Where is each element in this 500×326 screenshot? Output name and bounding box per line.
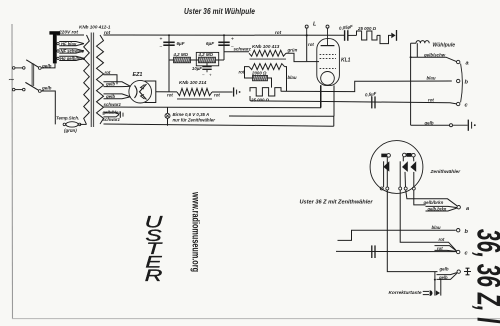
wire zenith blau bbox=[338, 230, 456, 240]
capacitor C1 6uF bbox=[163, 41, 174, 43]
svg-text:rot: rot bbox=[214, 93, 220, 98]
svg-text:rot: rot bbox=[105, 70, 111, 75]
svg-text:rot: rot bbox=[239, 69, 245, 74]
tap pennant gelb heater2 bbox=[104, 94, 131, 97]
brace abc bbox=[461, 64, 463, 103]
wire korrektur right bbox=[440, 279, 442, 296]
wire to jack bbox=[212, 91, 233, 93]
svg-text:Zenithwähler: Zenithwähler bbox=[430, 169, 462, 175]
KL1 pin2 bbox=[333, 85, 335, 116]
wire div to rot bbox=[245, 67, 253, 78]
selector tap 2 bbox=[57, 50, 59, 52]
tap pennant NF schwarz bbox=[59, 49, 84, 51]
tag rot lower bbox=[435, 246, 457, 251]
svg-text:Hg gelb/blau: Hg gelb/blau bbox=[60, 56, 86, 61]
svg-text:schwarz: schwarz bbox=[234, 47, 252, 52]
junction rail grid bbox=[306, 34, 308, 36]
plunger mid wedge bbox=[402, 161, 408, 172]
wire 220V rail bbox=[57, 34, 84, 36]
svg-text:25 000 Ω: 25 000 Ω bbox=[250, 98, 270, 103]
jack chassis bbox=[233, 87, 235, 96]
svg-text:gelb: gelb bbox=[105, 82, 115, 87]
svg-text:Birne 0,6 V 0,35 A: Birne 0,6 V 0,35 A bbox=[173, 112, 210, 117]
capacitor C2 6uF bbox=[218, 41, 229, 43]
svg-text:gelb: gelb bbox=[41, 86, 52, 91]
plunger left wires bbox=[383, 161, 385, 187]
rail schwarz bottom bbox=[104, 124, 334, 126]
svg-text:4,2 MΩ: 4,2 MΩ bbox=[198, 52, 214, 57]
svg-text:a: a bbox=[466, 206, 469, 212]
svg-text:25 000 Ω: 25 000 Ω bbox=[357, 26, 377, 31]
tap pennant gelb heater1 bbox=[104, 82, 131, 87]
wire zenith rot lower bbox=[336, 250, 456, 252]
svg-text:gelb.brkn: gelb.brkn bbox=[427, 206, 447, 211]
terminal plus bbox=[457, 270, 460, 273]
divider lower winding bbox=[249, 64, 285, 70]
svg-text:rot: rot bbox=[428, 97, 434, 102]
svg-text:blau: blau bbox=[427, 76, 436, 81]
mains pin top bbox=[12, 67, 15, 70]
KL1 pin1 bbox=[320, 85, 322, 107]
coil Wuehlpule bbox=[411, 42, 416, 44]
wire primary bottom to fuse bbox=[80, 123, 87, 125]
EZ1 cathode arc bbox=[135, 86, 138, 99]
svg-text:rot: rot bbox=[437, 246, 443, 251]
svg-text:L: L bbox=[313, 22, 316, 28]
svg-text:Wühlpule: Wühlpule bbox=[433, 42, 456, 48]
wire EZ1 cathode out bbox=[156, 91, 177, 93]
tube KL1 envelope bbox=[317, 39, 340, 86]
svg-text:(grün): (grün) bbox=[64, 128, 77, 133]
svg-text:NF schwarz: NF schwarz bbox=[61, 49, 85, 54]
terminal gelb bbox=[450, 124, 453, 127]
svg-text:Uster 36 mit Wühlpule: Uster 36 mit Wühlpule bbox=[184, 6, 255, 16]
selector tap 3 bbox=[57, 57, 59, 59]
svg-text:6µF: 6µF bbox=[177, 41, 185, 46]
svg-text:gelb: gelb bbox=[424, 120, 434, 125]
tap rot anode bbox=[104, 75, 118, 85]
svg-text:KNb 100 413: KNb 100 413 bbox=[252, 44, 280, 49]
svg-text:−: − bbox=[160, 45, 163, 51]
HT rail rot bbox=[104, 34, 345, 36]
rectifier EZ1 envelope bbox=[129, 80, 152, 103]
wire loop bbox=[377, 35, 391, 43]
svg-text:∼: ∼ bbox=[8, 75, 15, 84]
wire 2000 to meander bbox=[268, 78, 272, 88]
wire cap2 bus bbox=[223, 35, 225, 60]
svg-text:4,2 MΩ: 4,2 MΩ bbox=[173, 52, 189, 57]
svg-text:a: a bbox=[466, 60, 469, 66]
wire resistor row bbox=[169, 59, 174, 61]
svg-text:rot: rot bbox=[308, 42, 314, 47]
selector tap 1 bbox=[57, 42, 59, 44]
wire zenith a2 bbox=[414, 190, 426, 205]
svg-text:gelb: gelb bbox=[105, 94, 115, 99]
resistor 25000 meander bbox=[250, 88, 281, 96]
junction korrektur bbox=[434, 279, 436, 281]
svg-text:gelb/brkn: gelb/brkn bbox=[423, 200, 444, 205]
capacitor C3 10uF bbox=[206, 63, 208, 67]
wire coil stub bbox=[416, 43, 418, 57]
tap pennant gelb-blau bbox=[104, 112, 120, 114]
scan edge left bbox=[11, 24, 14, 319]
contact circles mid bbox=[399, 187, 402, 190]
divider upper winding bbox=[249, 50, 286, 56]
svg-text:schwarz: schwarz bbox=[104, 102, 122, 107]
plunger right wedge bbox=[410, 161, 416, 172]
jack symbol right bbox=[453, 124, 468, 126]
wire meander left down bbox=[249, 96, 251, 101]
junction dot rail cap2 bbox=[223, 34, 225, 36]
svg-text:grün: grün bbox=[287, 47, 298, 52]
capacitor 0.5uF bbox=[371, 96, 373, 108]
junction bus a bbox=[410, 56, 412, 58]
plunger mid flag bbox=[403, 153, 407, 157]
watermark USTER bbox=[145, 213, 164, 285]
svg-text:6µF: 6µF bbox=[206, 41, 214, 46]
wire blau vertical bbox=[285, 67, 287, 92]
svg-text:10µF: 10µF bbox=[192, 66, 202, 71]
wire a line bbox=[411, 57, 457, 61]
svg-text:blau: blau bbox=[432, 225, 441, 230]
EZ1 output funnel bbox=[145, 81, 156, 103]
terminal a2 bbox=[457, 206, 460, 209]
svg-text:+: + bbox=[231, 37, 234, 43]
svg-text:nur für Zenithwähler: nur für Zenithwähler bbox=[173, 117, 216, 122]
korrektur symbol bbox=[423, 290, 429, 292]
capacitor 0.05uF bbox=[344, 30, 346, 41]
resistor R1 4.2M bbox=[174, 57, 191, 63]
resistor KNb 100 214 bbox=[177, 88, 212, 95]
svg-text:Uster 36 Z mit Zenithwähler: Uster 36 Z mit Zenithwähler bbox=[300, 200, 374, 206]
wire switch to fuse bbox=[41, 91, 55, 124]
svg-text:KNb 100 214: KNb 100 214 bbox=[179, 80, 207, 85]
mains pin bottom bbox=[12, 88, 15, 91]
wire gelb line bbox=[411, 124, 450, 126]
svg-text:rot: rot bbox=[104, 30, 111, 35]
wire b line bbox=[281, 81, 452, 92]
junction dot rail cap1 bbox=[168, 34, 170, 36]
plunger left flag bbox=[381, 154, 387, 158]
tap pennant Hg gelb-blau bbox=[59, 56, 84, 58]
svg-text:HF blau: HF blau bbox=[61, 41, 77, 46]
fuse Temp.Sich bbox=[66, 122, 78, 127]
tag gelb-brkn bbox=[426, 206, 458, 207]
resistor 2000 ohm bbox=[253, 75, 268, 80]
arrow output bbox=[391, 33, 395, 39]
svg-text:gelb/blau: gelb/blau bbox=[102, 110, 122, 115]
svg-text:b: b bbox=[465, 229, 469, 235]
svg-text:rot: rot bbox=[439, 237, 445, 242]
terminal post right bbox=[326, 25, 329, 28]
wire switch to selector bbox=[41, 63, 55, 68]
KL1 cathode circle bbox=[321, 72, 335, 86]
wire schwarz div bbox=[224, 51, 249, 53]
switch S1 upper arm bbox=[26, 60, 38, 68]
svg-text:USTER: USTER bbox=[145, 213, 164, 285]
plus symbol bbox=[464, 268, 471, 275]
svg-text:+: + bbox=[209, 72, 212, 77]
svg-text:36, 36 Z, I: 36, 36 Z, I bbox=[470, 229, 500, 323]
jack gelb-blau bbox=[119, 111, 121, 117]
korrektur arrow bbox=[436, 290, 440, 295]
voltage selector bar bbox=[53, 34, 57, 64]
svg-text:Temp.Sich.: Temp.Sich. bbox=[56, 116, 79, 121]
svg-text:gelb: gelb bbox=[438, 275, 448, 280]
wire grid cap bbox=[306, 35, 308, 61]
switch coupling bar bbox=[31, 64, 33, 87]
switch S1 lower arm bbox=[25, 82, 38, 90]
contact circles left bbox=[380, 187, 383, 190]
svg-text:rot: rot bbox=[275, 30, 282, 35]
scan edge bottom bbox=[12, 318, 500, 320]
terminal post left bbox=[305, 25, 308, 28]
KL1 anode plate bbox=[327, 39, 329, 45]
rail schwarz mid bbox=[104, 85, 321, 108]
resistor 25000 top bbox=[357, 31, 378, 40]
svg-text:EZ1: EZ1 bbox=[133, 72, 143, 78]
wire c line bbox=[250, 101, 457, 104]
wire gruen bbox=[286, 53, 307, 61]
svg-text:gelb/schw: gelb/schw bbox=[423, 52, 446, 57]
svg-text:www.radiomuseum.org: www.radiomuseum.org bbox=[190, 191, 201, 272]
transformer primary winding bbox=[84, 35, 90, 124]
plunger left wedge bbox=[383, 161, 389, 171]
resistor R2 4.2M bbox=[199, 57, 216, 63]
svg-text:−: − bbox=[202, 72, 205, 77]
svg-text:b: b bbox=[465, 79, 469, 85]
rail heater lamp bbox=[167, 107, 169, 126]
wire zenith a1 bbox=[406, 190, 457, 206]
svg-text:2000 Ω: 2000 Ω bbox=[251, 70, 267, 75]
plunger right wires bbox=[413, 157, 415, 161]
svg-text:rot: rot bbox=[167, 93, 173, 98]
transformer secondary winding bbox=[97, 35, 104, 124]
terminal c2 bbox=[457, 250, 460, 253]
svg-text:+: + bbox=[160, 37, 163, 43]
terminal b2 bbox=[457, 229, 460, 232]
wire zenith rot upper bbox=[400, 190, 457, 251]
bus vertical bbox=[410, 43, 412, 125]
tap pennant HF blau bbox=[59, 42, 84, 44]
svg-text:KL1: KL1 bbox=[341, 58, 351, 64]
wire cap1 bus bbox=[168, 35, 170, 92]
terminal b bbox=[457, 79, 460, 82]
underline bar div bbox=[250, 58, 287, 59]
svg-text:blau: blau bbox=[288, 75, 297, 80]
EZ1 anode wedges bbox=[140, 84, 147, 100]
lamp Birne bbox=[165, 113, 170, 118]
tag gelb plus bbox=[437, 273, 457, 275]
underline bar KNb214 bbox=[177, 98, 212, 100]
contact circle right bbox=[412, 187, 415, 190]
module box bbox=[196, 52, 218, 65]
KL1 grid dashes bbox=[320, 53, 336, 55]
Zenith selector circle bbox=[370, 141, 423, 194]
wire korrektur left bbox=[434, 272, 436, 296]
terminal a bbox=[457, 60, 460, 63]
svg-text:schwarz: schwarz bbox=[103, 117, 121, 122]
terminal c bbox=[457, 102, 460, 105]
transformer core bbox=[90, 33, 92, 128]
svg-text:Korrekturtaste: Korrekturtaste bbox=[388, 290, 421, 296]
capacitor zenith bbox=[371, 245, 373, 258]
wire zenith gelb bbox=[387, 190, 437, 272]
plunger mid wires bbox=[402, 157, 404, 161]
svg-text:gelb: gelb bbox=[439, 267, 449, 272]
wire cap to meander bbox=[348, 34, 357, 36]
